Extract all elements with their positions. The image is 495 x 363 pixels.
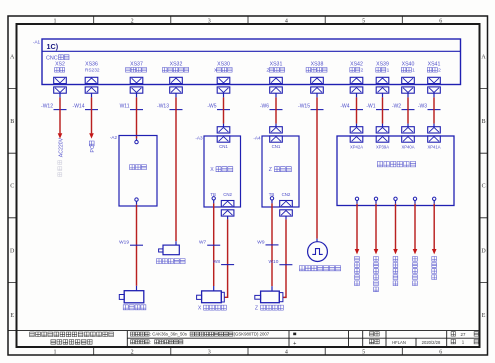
spindle motor M1 box xyxy=(124,291,144,303)
svg-text:-W14: -W14 xyxy=(73,104,85,110)
svg-text:XP41A: XP41A xyxy=(427,145,440,150)
svg-text:XS32: XS32 xyxy=(170,61,183,67)
position encoder box xyxy=(163,245,179,255)
svg-text:-W3: -W3 xyxy=(418,104,427,110)
svg-text:XS38: XS38 xyxy=(311,61,324,67)
svg-text:6: 6 xyxy=(439,18,442,24)
wire W9 tick xyxy=(266,244,279,246)
wire stub XS41 xyxy=(433,93,435,97)
wire to distribution panel connector xyxy=(433,97,435,123)
svg-text:E: E xyxy=(482,313,486,319)
manual pulse generator circle xyxy=(308,242,328,262)
wire -W2 tick xyxy=(402,109,415,111)
connector XS31 socket pair xyxy=(270,77,283,83)
wire stub XS30 xyxy=(223,93,225,97)
svg-text:CN2: CN2 xyxy=(282,192,291,197)
svg-text:XS39: XS39 xyxy=(376,61,389,67)
connector XS42 socket pair xyxy=(350,77,363,83)
svg-text:Z: Z xyxy=(269,167,272,173)
svg-text:-A4: -A4 xyxy=(253,136,261,141)
svg-text:XS41: XS41 xyxy=(428,61,441,67)
svg-text:3: 3 xyxy=(208,18,211,24)
svg-text:D: D xyxy=(481,248,486,254)
svg-text:4: 4 xyxy=(285,349,288,355)
arrowhead PC xyxy=(89,133,94,138)
panel output wire 2 xyxy=(375,201,377,204)
connector XS40 socket pair xyxy=(402,77,415,83)
X driver U3 box xyxy=(204,136,241,207)
wire -W12 tick xyxy=(54,109,67,111)
arrowhead output 2 xyxy=(374,249,379,254)
connector XS2 socket pair xyxy=(54,77,67,83)
arrowhead output 5 xyxy=(432,249,437,254)
inverter U2 box xyxy=(119,136,157,207)
wire W11 tick xyxy=(130,109,143,111)
panel output wire 5 xyxy=(433,201,435,204)
wire stub XS31 xyxy=(275,93,277,97)
wire stub XS39 xyxy=(382,93,384,97)
wire stub XS38 xyxy=(316,93,318,97)
wire W7 tick xyxy=(207,244,220,246)
wire to distribution panel connector xyxy=(356,97,358,123)
connector XS36 socket pair xyxy=(85,77,98,83)
CNC unit title divider xyxy=(42,50,461,52)
panel connector XP42A pair xyxy=(350,127,363,133)
svg-text:2: 2 xyxy=(131,18,134,24)
label AC220V xyxy=(58,137,64,157)
wire W15 to pulse generator xyxy=(316,97,318,238)
title block grid xyxy=(8,331,480,347)
inverter output terminal xyxy=(135,198,138,201)
svg-text:CN1: CN1 xyxy=(272,144,281,149)
panel output terminal 2 xyxy=(374,197,377,200)
wire stub XS40 xyxy=(407,93,409,97)
svg-text:TB: TB xyxy=(269,192,275,197)
wire stub XS36 xyxy=(91,93,93,97)
wire -W4 tick xyxy=(350,109,363,111)
svg-text:-W2: -W2 xyxy=(392,104,401,110)
project description row xyxy=(131,332,150,336)
wire W11 to inverter xyxy=(136,97,138,138)
panel output terminal 5 xyxy=(433,197,436,200)
connector XS32 socket pair xyxy=(170,77,183,83)
sheet number cell xyxy=(451,340,455,344)
revision mark square xyxy=(293,333,296,336)
arrowhead output 4 xyxy=(413,249,418,254)
wire W14 to PC xyxy=(91,97,93,133)
svg-text:: CAK36s_36n_50s: : CAK36s_36n_50s xyxy=(150,332,187,337)
svg-text:-W5: -W5 xyxy=(207,104,216,110)
svg-text:-W6: -W6 xyxy=(260,104,269,110)
svg-text:1: 1 xyxy=(462,340,465,345)
panel output terminal 4 xyxy=(413,197,416,200)
svg-text:(GSK980TD) 2007: (GSK980TD) 2007 xyxy=(234,332,270,337)
wire W12 to AC220V xyxy=(59,97,61,133)
svg-text:1: 1 xyxy=(54,349,57,355)
svg-text:W10: W10 xyxy=(269,259,279,265)
wire to distribution panel connector xyxy=(407,97,409,123)
arrowhead AC220V xyxy=(58,133,63,138)
wire -W6 tick xyxy=(270,109,283,111)
svg-text:-A1: -A1 xyxy=(33,39,41,44)
connector XS39 socket pair xyxy=(376,77,389,83)
svg-text:XS31: XS31 xyxy=(270,61,283,67)
Z driver CN1 connector pair xyxy=(270,127,283,133)
svg-text:HFLAN: HFLAN xyxy=(392,340,406,345)
wire to distribution panel connector xyxy=(382,97,384,123)
connector XS30 socket pair xyxy=(217,77,230,83)
svg-text:X: X xyxy=(198,306,202,312)
svg-text:-A2: -A2 xyxy=(110,135,118,140)
pulse waveform glyph xyxy=(312,249,322,255)
inverter name text xyxy=(130,165,147,170)
svg-text:TB: TB xyxy=(210,192,216,197)
wire -W13 tick xyxy=(170,109,183,111)
svg-text:W7: W7 xyxy=(199,240,207,246)
X driver CN2 connector pair xyxy=(221,201,234,207)
wire W10 xyxy=(285,216,287,219)
X driver CN1 connector pair xyxy=(217,127,230,133)
panel output wire 4 xyxy=(414,201,416,204)
svg-text::: : xyxy=(150,339,151,344)
svg-text:D: D xyxy=(10,248,15,254)
sheet total cell xyxy=(451,332,455,336)
panel output wire 1 xyxy=(356,201,358,204)
wire W7 xyxy=(213,200,215,203)
svg-text:XP39A: XP39A xyxy=(376,145,389,150)
wire W19 tick xyxy=(130,244,143,246)
svg-text:AC220V: AC220V xyxy=(58,137,64,157)
connector XS38 socket pair xyxy=(311,77,324,83)
device description row xyxy=(131,340,150,344)
panel output terminal 3 xyxy=(394,197,397,200)
svg-text:-W4: -W4 xyxy=(340,104,349,110)
svg-text:2: 2 xyxy=(131,349,134,355)
wire W10 tick xyxy=(279,264,292,266)
X driver TB terminal xyxy=(212,197,215,200)
svg-text:XP40A: XP40A xyxy=(401,145,414,150)
X servo motor M2 box xyxy=(202,291,222,303)
svg-text:-W1: -W1 xyxy=(366,104,375,110)
svg-text:B: B xyxy=(10,119,14,125)
svg-text:6: 6 xyxy=(439,349,442,355)
faint note text xyxy=(58,161,62,177)
wire stub XS42 xyxy=(356,93,358,97)
label PC-ji xyxy=(90,145,96,152)
manual pulse generator label xyxy=(299,266,340,271)
Z driver CN2 connector pair xyxy=(280,201,293,207)
designer label cell xyxy=(369,339,379,343)
svg-text:E: E xyxy=(10,313,14,319)
CNC unit U1 box xyxy=(42,39,461,85)
wire W8 xyxy=(227,216,229,219)
svg-text:W19: W19 xyxy=(119,240,129,246)
Z driver TB terminal xyxy=(270,197,273,200)
position encoder label xyxy=(157,259,186,264)
svg-text:W11: W11 xyxy=(120,104,130,110)
svg-text:27: 27 xyxy=(461,332,466,337)
svg-text:W9: W9 xyxy=(257,239,265,245)
svg-text:5: 5 xyxy=(362,349,365,355)
svg-text:C: C xyxy=(10,184,14,190)
panel connector XP41A pair xyxy=(428,127,441,133)
output label 刀架电动机 xyxy=(355,257,360,286)
wire W8 tick xyxy=(221,264,234,266)
wire -W15 tick xyxy=(311,109,324,111)
panel connector XP40A pair xyxy=(402,127,415,133)
output label 机床照明 xyxy=(432,257,437,280)
svg-text:1: 1 xyxy=(54,18,57,24)
output label 润滑泵电动机 xyxy=(374,257,379,292)
svg-text:B: B xyxy=(482,119,486,125)
svg-text:XS42: XS42 xyxy=(350,61,363,67)
wire W19 xyxy=(136,201,138,204)
svg-text:XS36: XS36 xyxy=(85,61,98,67)
distribution panel box xyxy=(337,136,454,206)
wire -W3 tick xyxy=(428,109,441,111)
wire -W1 tick xyxy=(376,109,389,111)
svg-text:CN2: CN2 xyxy=(223,192,232,197)
svg-text:CN1: CN1 xyxy=(219,144,228,149)
svg-text:W8: W8 xyxy=(213,259,221,265)
wire stub XS37 xyxy=(136,93,138,97)
wire W9 xyxy=(271,200,273,203)
svg-text:C: C xyxy=(482,184,486,190)
Z driver U4 box xyxy=(262,136,299,207)
Z servo motor M3 box xyxy=(261,291,280,303)
svg-text:XS2: XS2 xyxy=(55,61,65,67)
svg-text:XS30: XS30 xyxy=(217,61,230,67)
output label 液压电动机 xyxy=(393,257,398,286)
drawing-number label cell xyxy=(369,332,379,336)
company name cell xyxy=(30,332,114,337)
svg-text:1: 1 xyxy=(412,68,415,74)
svg-text:5: 5 xyxy=(362,18,365,24)
inverter input terminal xyxy=(135,140,138,143)
connector XS41 socket pair xyxy=(428,77,441,83)
svg-text:4: 4 xyxy=(285,18,288,24)
svg-text:+: + xyxy=(293,341,296,347)
connector XS37 socket pair xyxy=(130,77,143,83)
svg-text:Z: Z xyxy=(255,306,258,312)
arrowhead output 3 xyxy=(393,249,398,254)
svg-text:-W13: -W13 xyxy=(157,104,169,110)
svg-text:3: 3 xyxy=(208,349,211,355)
panel output terminal 1 xyxy=(355,197,358,200)
panel connector XP39A pair xyxy=(376,127,389,133)
svg-text:1C): 1C) xyxy=(47,42,59,51)
svg-text:-W15: -W15 xyxy=(298,104,310,110)
svg-text:A: A xyxy=(10,55,15,61)
svg-text:1: 1 xyxy=(387,68,390,74)
svg-text:A: A xyxy=(481,55,486,61)
wire W6 to Z driver CN1 xyxy=(275,97,277,123)
output label 冷却电动机 xyxy=(413,257,418,286)
wire -W5 tick xyxy=(217,109,230,111)
svg-text:XS37: XS37 xyxy=(130,61,143,67)
wire -W14 tick xyxy=(85,109,98,111)
panel output wire 3 xyxy=(395,201,397,204)
svg-text:XP42A: XP42A xyxy=(350,145,363,150)
svg-text:2: 2 xyxy=(361,68,364,74)
svg-text:XS40: XS40 xyxy=(402,61,415,67)
svg-text:RS232: RS232 xyxy=(85,68,100,74)
arrowhead output 1 xyxy=(355,249,360,254)
svg-text:-W12: -W12 xyxy=(41,104,53,110)
wire stub XS32 xyxy=(175,93,177,97)
svg-text:2: 2 xyxy=(438,68,441,74)
wire stub XS2 xyxy=(59,93,61,97)
svg-text:2020/2/28: 2020/2/28 xyxy=(422,340,441,345)
svg-text:X: X xyxy=(210,167,214,173)
wire W5 to X driver CN1 xyxy=(223,97,225,123)
svg-text:PC: PC xyxy=(90,145,96,152)
svg-text:-A3: -A3 xyxy=(195,136,203,141)
panel name text xyxy=(377,162,415,167)
wire W13 to position encoder xyxy=(175,97,177,241)
spindle motor label xyxy=(123,305,146,310)
